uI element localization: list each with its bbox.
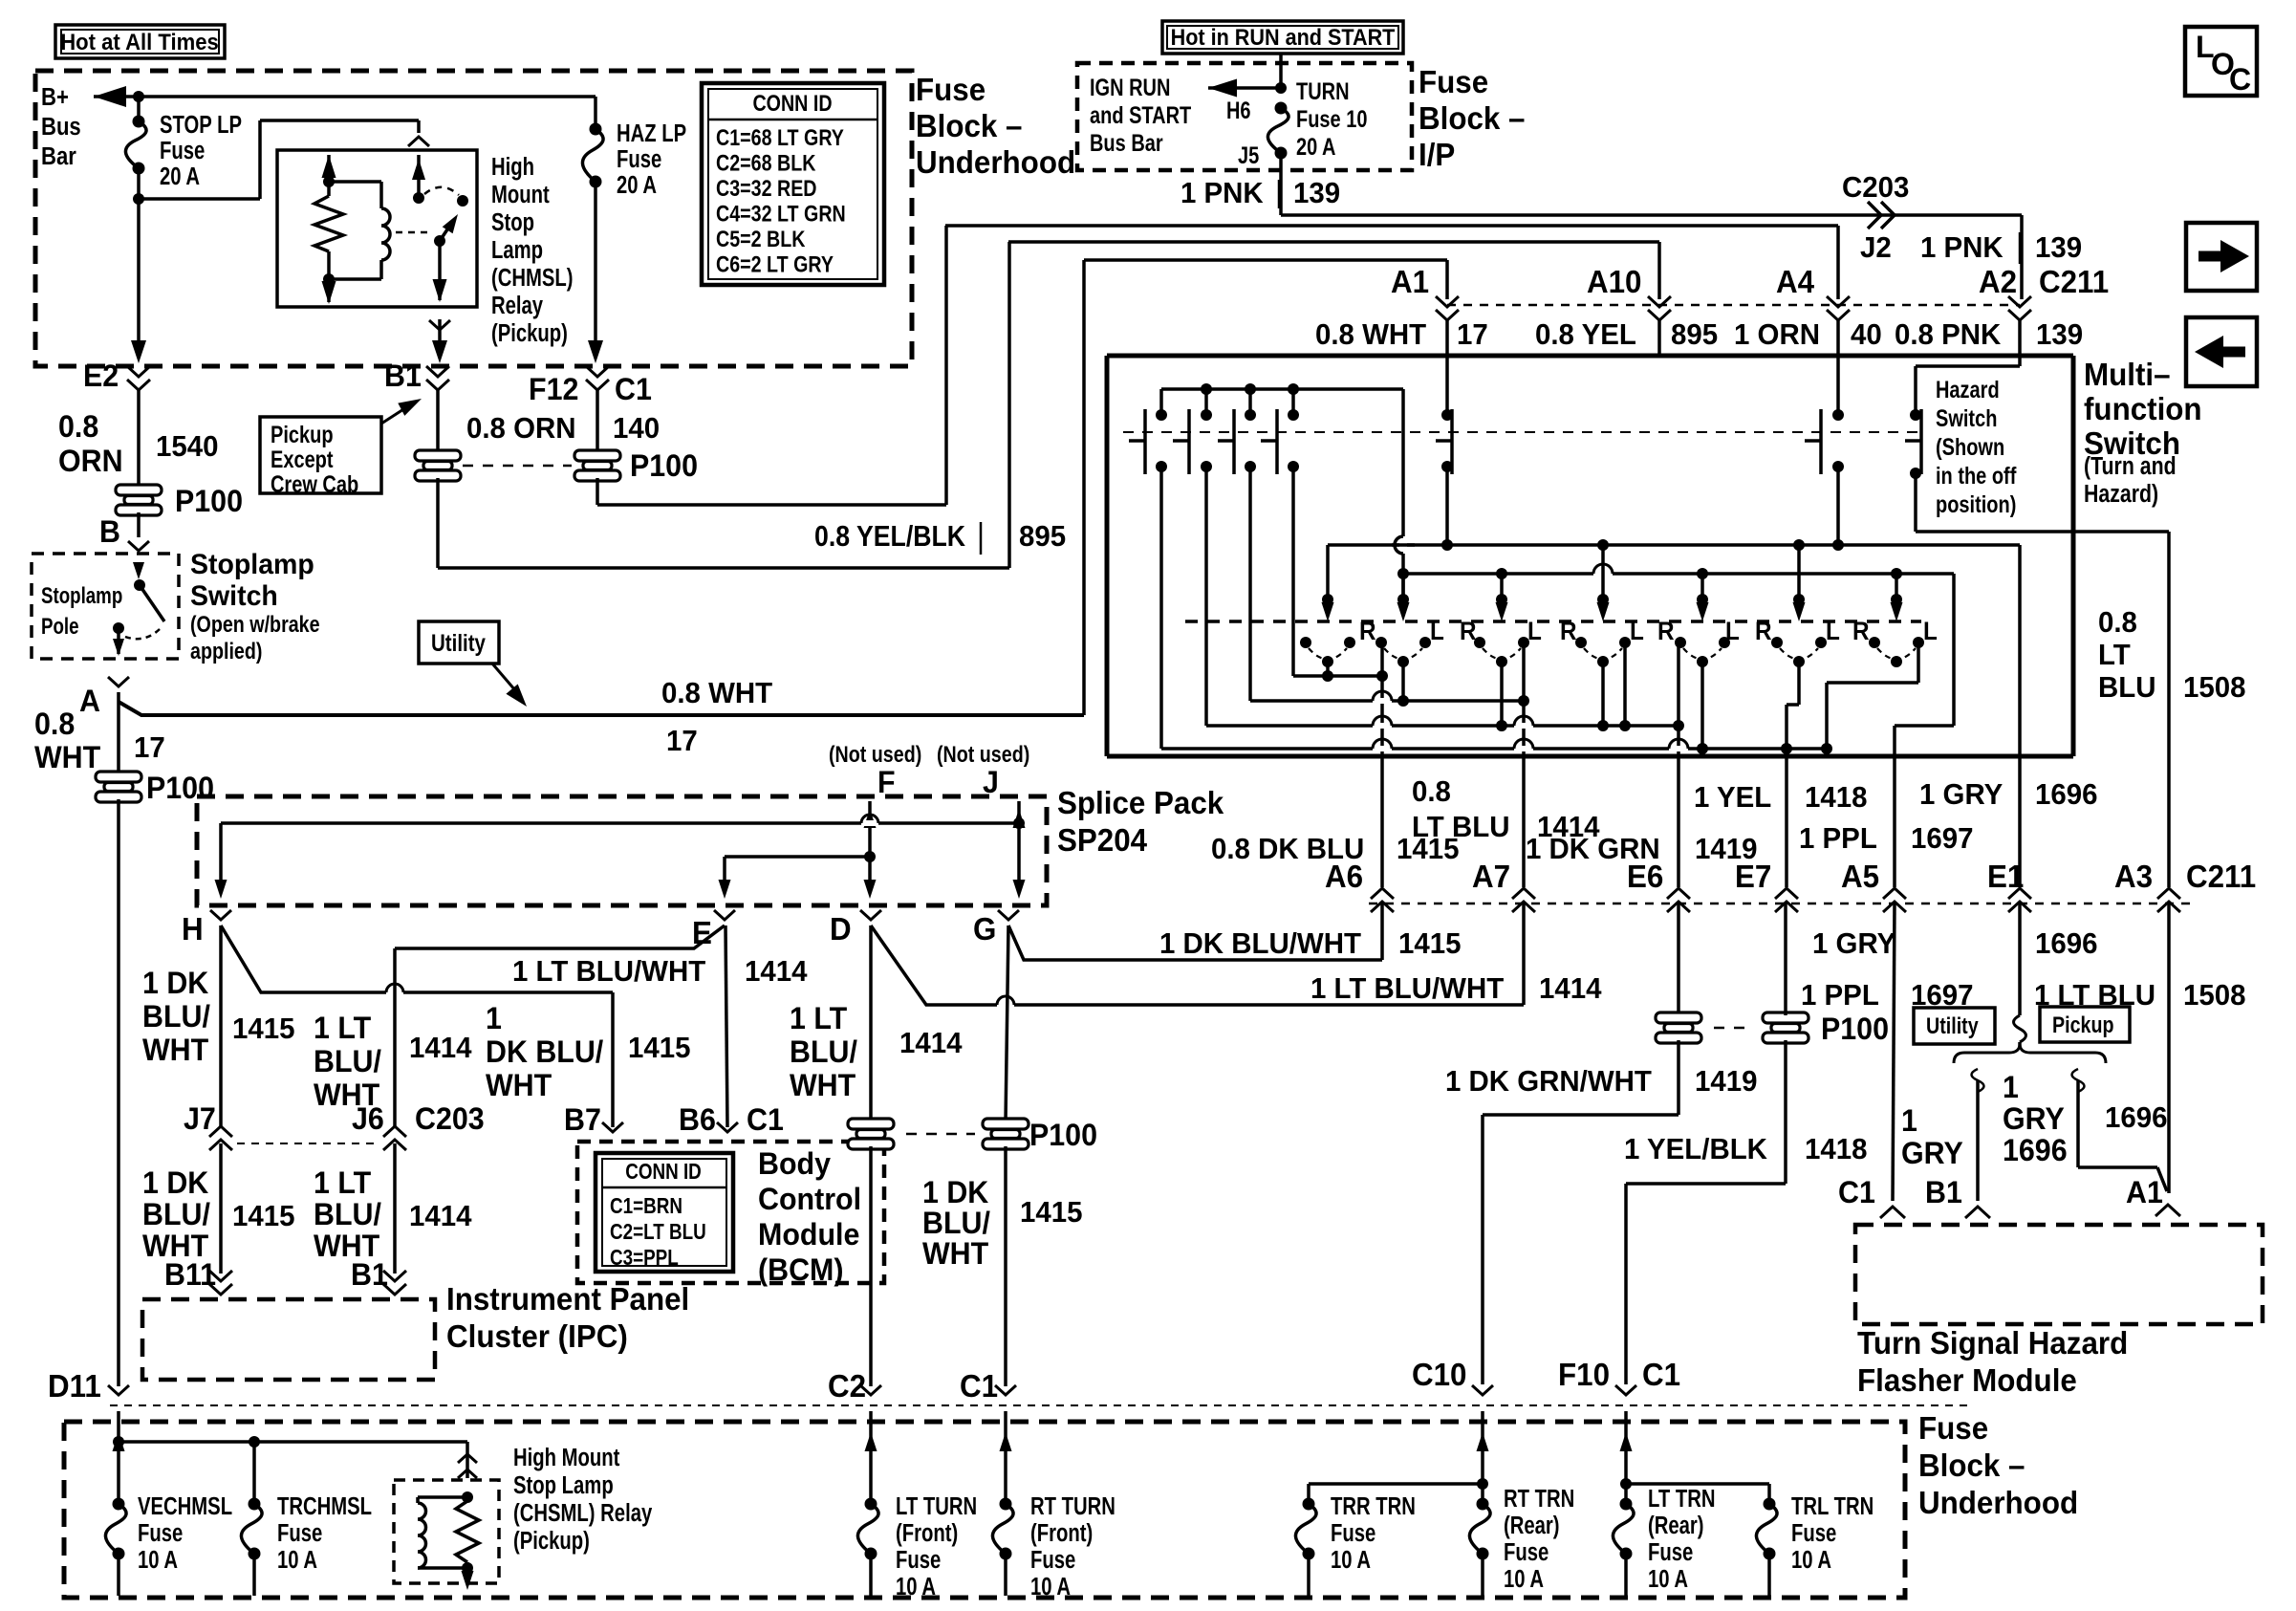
svg-text:1414: 1414 <box>899 1027 963 1059</box>
svg-text:LT: LT <box>2098 639 2131 671</box>
svg-text:1419: 1419 <box>1695 1065 1757 1098</box>
svg-text:(Shown: (Shown <box>1936 434 2004 461</box>
svg-text:C1: C1 <box>1838 1175 1875 1209</box>
svg-text:E7: E7 <box>1735 859 1771 894</box>
svg-text:Fuse 10: Fuse 10 <box>1296 106 1367 133</box>
svg-text:140: 140 <box>613 412 660 445</box>
svg-text:E2: E2 <box>83 359 119 393</box>
svg-text:WHT: WHT <box>790 1068 856 1102</box>
svg-text:(Open w/brake: (Open w/brake <box>190 611 320 637</box>
svg-text:Fuse: Fuse <box>1419 64 1488 99</box>
svg-text:C2=LT BLU: C2=LT BLU <box>610 1220 706 1244</box>
svg-text:A7: A7 <box>1472 859 1510 894</box>
svg-text:1414: 1414 <box>745 955 808 988</box>
svg-text:LT BLU: LT BLU <box>1412 811 1509 843</box>
svg-text:1 PNK: 1 PNK <box>1180 177 1264 209</box>
svg-text:Utility: Utility <box>1926 1012 1979 1038</box>
svg-text:Hot at All Times: Hot at All Times <box>60 29 219 54</box>
svg-text:1414: 1414 <box>1539 972 1602 1005</box>
svg-text:G: G <box>973 911 996 947</box>
svg-text:L: L <box>1630 618 1644 645</box>
svg-text:C203: C203 <box>1842 171 1909 204</box>
svg-text:1 DK: 1 DK <box>142 1165 209 1200</box>
svg-text:Block –: Block – <box>1918 1448 2025 1483</box>
svg-text:E: E <box>692 915 712 950</box>
svg-text:1 LT: 1 LT <box>790 1001 847 1035</box>
svg-text:C2=68 BLK: C2=68 BLK <box>716 150 816 176</box>
svg-text:1 PPL: 1 PPL <box>1799 822 1877 855</box>
svg-text:(Rear): (Rear) <box>1648 1512 1704 1539</box>
svg-text:F10: F10 <box>1558 1357 1610 1392</box>
svg-text:J5: J5 <box>1238 142 1259 169</box>
svg-text:1540: 1540 <box>156 430 218 463</box>
svg-text:WHT: WHT <box>34 740 100 774</box>
svg-text:Underhood: Underhood <box>1918 1485 2078 1520</box>
svg-text:IGN RUN: IGN RUN <box>1090 75 1170 101</box>
svg-text:1697: 1697 <box>1911 822 1973 855</box>
svg-text:1414: 1414 <box>409 1032 472 1064</box>
svg-text:Fuse: Fuse <box>617 145 661 173</box>
svg-text:SP204: SP204 <box>1057 822 1147 858</box>
svg-text:R: R <box>1755 618 1772 645</box>
svg-text:(Pickup): (Pickup) <box>513 1527 590 1555</box>
svg-text:C1=BRN: C1=BRN <box>610 1194 682 1218</box>
svg-text:BLU/: BLU/ <box>790 1034 857 1069</box>
svg-text:1 DK GRN/WHT: 1 DK GRN/WHT <box>1445 1065 1652 1098</box>
svg-text:A5: A5 <box>1841 859 1879 894</box>
svg-text:1 DK: 1 DK <box>142 966 209 1000</box>
svg-text:17: 17 <box>1457 318 1488 351</box>
svg-text:Fuse: Fuse <box>1030 1546 1075 1574</box>
svg-text:BLU/: BLU/ <box>142 1197 210 1231</box>
svg-text:BLU/: BLU/ <box>142 999 210 1034</box>
svg-text:L: L <box>1826 618 1840 645</box>
svg-text:895: 895 <box>1671 318 1718 351</box>
svg-text:1: 1 <box>486 1001 502 1035</box>
svg-text:A10: A10 <box>1587 264 1641 299</box>
svg-text:Except: Except <box>271 446 334 473</box>
svg-text:R: R <box>1560 618 1577 645</box>
svg-text:40: 40 <box>1851 318 1882 351</box>
svg-text:CONN ID: CONN ID <box>752 90 832 116</box>
svg-text:Fuse: Fuse <box>1648 1538 1693 1566</box>
svg-text:Control: Control <box>758 1182 861 1216</box>
svg-text:BLU/: BLU/ <box>922 1206 990 1240</box>
svg-text:C1=68 LT GRY: C1=68 LT GRY <box>716 124 844 150</box>
svg-text:J7: J7 <box>184 1101 216 1136</box>
svg-text:1415: 1415 <box>628 1032 690 1064</box>
svg-text:A4: A4 <box>1776 264 1814 299</box>
svg-text:1415: 1415 <box>232 1012 294 1045</box>
svg-text:Flasher Module: Flasher Module <box>1857 1362 2077 1398</box>
svg-text:B: B <box>99 514 120 549</box>
svg-text:0.8 WHT: 0.8 WHT <box>1315 318 1427 351</box>
svg-text:1696: 1696 <box>2105 1101 2167 1134</box>
svg-text:139: 139 <box>2035 231 2082 264</box>
svg-text:D: D <box>830 911 852 947</box>
svg-text:B1: B1 <box>1925 1175 1962 1209</box>
svg-text:D11: D11 <box>48 1368 101 1404</box>
svg-text:1 LT: 1 LT <box>314 1011 371 1045</box>
svg-text:10 A: 10 A <box>1504 1565 1544 1593</box>
svg-text:B1: B1 <box>384 359 422 393</box>
svg-text:(CHMSL): (CHMSL) <box>491 264 574 292</box>
svg-text:C1: C1 <box>615 372 652 406</box>
svg-text:895: 895 <box>1019 520 1066 553</box>
svg-text:C211: C211 <box>2186 859 2256 894</box>
svg-text:A2: A2 <box>1979 264 2017 299</box>
svg-text:WHT: WHT <box>922 1236 988 1271</box>
svg-text:139: 139 <box>1293 177 1340 209</box>
svg-text:P100: P100 <box>1029 1118 1097 1152</box>
svg-text:C1: C1 <box>960 1368 998 1404</box>
svg-text:10 A: 10 A <box>896 1573 936 1600</box>
svg-text:1 GRY: 1 GRY <box>1812 927 1895 960</box>
svg-text:applied): applied) <box>190 638 262 664</box>
svg-text:1 LT BLU/WHT: 1 LT BLU/WHT <box>512 955 706 988</box>
svg-text:Multi–: Multi– <box>2084 357 2171 392</box>
svg-text:0.8 ORN: 0.8 ORN <box>466 412 576 445</box>
svg-text:1: 1 <box>2003 1070 2019 1104</box>
svg-text:RT TURN: RT TURN <box>1030 1492 1116 1520</box>
svg-text:(BCM): (BCM) <box>758 1252 843 1287</box>
svg-text:Bus: Bus <box>41 113 81 141</box>
svg-text:1 DK BLU/WHT: 1 DK BLU/WHT <box>1159 927 1361 960</box>
svg-text:Hazard): Hazard) <box>2084 480 2158 509</box>
svg-text:1 PPL: 1 PPL <box>1801 979 1879 1012</box>
svg-text:TURN: TURN <box>1296 78 1350 105</box>
svg-text:B7: B7 <box>564 1102 601 1137</box>
svg-text:1 YEL: 1 YEL <box>1694 781 1771 814</box>
svg-text:Hazard: Hazard <box>1936 377 2000 403</box>
svg-text:C4=32 LT GRN: C4=32 LT GRN <box>716 201 846 227</box>
svg-text:10 A: 10 A <box>138 1546 178 1574</box>
svg-text:Module: Module <box>758 1217 859 1252</box>
svg-text:Switch: Switch <box>1936 405 1997 432</box>
svg-text:STOP LP: STOP LP <box>160 111 242 139</box>
svg-text:Fuse: Fuse <box>916 72 986 107</box>
svg-text:I/P: I/P <box>1419 137 1455 172</box>
svg-text:LT TRN: LT TRN <box>1648 1485 1716 1513</box>
svg-text:J6: J6 <box>352 1101 384 1136</box>
svg-text:(Front): (Front) <box>896 1519 958 1547</box>
svg-text:Pickup: Pickup <box>2052 1012 2114 1037</box>
svg-text:Bar: Bar <box>41 142 76 170</box>
svg-text:Utility: Utility <box>431 629 486 656</box>
svg-text:Fuse: Fuse <box>1504 1538 1549 1566</box>
svg-text:1 LT BLU/WHT: 1 LT BLU/WHT <box>1310 972 1505 1005</box>
svg-text:VECHMSL: VECHMSL <box>138 1492 232 1520</box>
svg-text:1508: 1508 <box>2183 671 2245 704</box>
svg-text:1696: 1696 <box>2035 778 2097 811</box>
svg-text:10 A: 10 A <box>277 1546 317 1574</box>
svg-text:Pickup: Pickup <box>271 422 334 448</box>
svg-text:GRY: GRY <box>2003 1101 2065 1136</box>
svg-text:Stop Lamp: Stop Lamp <box>513 1471 614 1499</box>
svg-text:GRY: GRY <box>1901 1136 1963 1170</box>
svg-text:RT TRN: RT TRN <box>1504 1485 1574 1513</box>
svg-text:H6: H6 <box>1226 98 1251 124</box>
svg-text:20 A: 20 A <box>1296 134 1335 161</box>
svg-text:A: A <box>79 684 100 718</box>
svg-text:High Mount: High Mount <box>513 1444 620 1471</box>
svg-text:HAZ LP: HAZ LP <box>617 120 686 147</box>
svg-text:High: High <box>491 153 534 181</box>
svg-text:TRL TRN: TRL TRN <box>1791 1492 1874 1520</box>
svg-text:Fuse: Fuse <box>1918 1410 1988 1446</box>
svg-text:BLU: BLU <box>2098 671 2155 704</box>
svg-text:Body: Body <box>758 1146 832 1181</box>
svg-text:in the off: in the off <box>1936 463 2017 490</box>
svg-text:Turn Signal Hazard: Turn Signal Hazard <box>1857 1325 2128 1361</box>
svg-text:(CHSML) Relay: (CHSML) Relay <box>513 1499 652 1527</box>
svg-text:1 DK: 1 DK <box>922 1175 989 1209</box>
svg-text:0.8 YEL: 0.8 YEL <box>1535 318 1636 351</box>
svg-text:17: 17 <box>666 725 698 757</box>
svg-text:C5=2 BLK: C5=2 BLK <box>716 226 806 251</box>
svg-text:1 PNK: 1 PNK <box>1920 231 2004 264</box>
svg-text:R: R <box>1657 618 1675 645</box>
svg-text:Pole: Pole <box>41 614 79 640</box>
svg-text:BLU/: BLU/ <box>314 1197 381 1231</box>
svg-text:F12: F12 <box>529 372 578 406</box>
svg-text:B6: B6 <box>679 1102 716 1137</box>
svg-text:1 LT: 1 LT <box>314 1165 371 1200</box>
svg-text:1: 1 <box>1901 1103 1917 1138</box>
svg-text:Relay: Relay <box>491 292 543 319</box>
svg-text:0.8: 0.8 <box>2098 606 2137 639</box>
svg-text:Stoplamp: Stoplamp <box>41 583 122 609</box>
svg-text:1 ORN: 1 ORN <box>1734 318 1820 351</box>
svg-text:Cluster (IPC): Cluster (IPC) <box>446 1318 628 1354</box>
svg-text:Fuse: Fuse <box>1791 1519 1836 1547</box>
svg-text:(Rear): (Rear) <box>1504 1512 1560 1539</box>
svg-text:E6: E6 <box>1627 859 1663 894</box>
svg-text:B+: B+ <box>41 83 69 111</box>
svg-text:P100: P100 <box>175 484 243 518</box>
svg-text:A3: A3 <box>2114 859 2153 894</box>
svg-text:P100: P100 <box>630 448 698 483</box>
svg-text:A6: A6 <box>1325 859 1363 894</box>
svg-text:C203: C203 <box>415 1101 485 1136</box>
svg-text:B11: B11 <box>164 1257 216 1292</box>
svg-text:Stop: Stop <box>491 208 534 236</box>
svg-text:10 A: 10 A <box>1331 1546 1371 1574</box>
svg-text:Lamp: Lamp <box>491 236 543 264</box>
svg-text:10 A: 10 A <box>1030 1573 1071 1600</box>
svg-text:Fuse: Fuse <box>138 1519 183 1547</box>
svg-text:10 A: 10 A <box>1791 1546 1831 1574</box>
svg-text:Fuse: Fuse <box>277 1519 322 1547</box>
svg-text:Fuse: Fuse <box>896 1546 941 1574</box>
svg-text:LT TURN: LT TURN <box>896 1492 977 1520</box>
svg-text:Splice Pack: Splice Pack <box>1057 785 1224 820</box>
svg-text:C211: C211 <box>2039 264 2109 299</box>
svg-text:TRR TRN: TRR TRN <box>1331 1492 1416 1520</box>
svg-text:Block –: Block – <box>1419 100 1525 136</box>
svg-text:Mount: Mount <box>491 181 550 208</box>
svg-text:A1: A1 <box>1391 264 1429 299</box>
svg-text:1696: 1696 <box>2003 1133 2068 1167</box>
svg-text:1414: 1414 <box>409 1200 472 1232</box>
svg-text:C3=32 RED: C3=32 RED <box>716 175 817 201</box>
svg-text:C6=2 LT GRY: C6=2 LT GRY <box>716 251 834 277</box>
svg-text:1418: 1418 <box>1805 781 1867 814</box>
svg-text:1415: 1415 <box>232 1200 294 1232</box>
svg-text:0.8 WHT: 0.8 WHT <box>661 677 773 709</box>
svg-text:F: F <box>877 765 896 799</box>
svg-text:Fuse: Fuse <box>1331 1519 1375 1547</box>
svg-text:P100: P100 <box>1821 1012 1889 1046</box>
svg-text:(Not used): (Not used) <box>829 741 921 767</box>
svg-text:and START: and START <box>1090 102 1191 129</box>
svg-text:C3=PPL: C3=PPL <box>610 1246 679 1270</box>
svg-text:0.8: 0.8 <box>34 707 75 741</box>
svg-text:L: L <box>1527 618 1542 645</box>
svg-text:1 GRY: 1 GRY <box>1919 778 2003 811</box>
svg-text:C10: C10 <box>1412 1357 1466 1392</box>
svg-text:Fuse: Fuse <box>160 137 205 164</box>
svg-text:1415: 1415 <box>1020 1196 1082 1229</box>
svg-text:0.8: 0.8 <box>58 409 98 444</box>
svg-text:1418: 1418 <box>1805 1133 1867 1165</box>
svg-text:C1: C1 <box>1642 1357 1680 1392</box>
svg-text:1508: 1508 <box>2183 979 2245 1012</box>
svg-text:B1: B1 <box>351 1257 388 1292</box>
svg-text:WHT: WHT <box>486 1068 552 1102</box>
svg-text:1696: 1696 <box>2035 927 2097 960</box>
svg-text:P100: P100 <box>146 771 214 805</box>
svg-text:1 YEL/BLK: 1 YEL/BLK <box>1624 1133 1767 1165</box>
svg-text:Hot in RUN and START: Hot in RUN and START <box>1171 24 1396 50</box>
svg-text:0.8 YEL/BLK: 0.8 YEL/BLK <box>814 520 965 553</box>
svg-text:position): position) <box>1936 491 2016 518</box>
svg-text:(Not used): (Not used) <box>937 741 1029 767</box>
svg-text:L: L <box>1430 618 1444 645</box>
svg-text:Crew Cab: Crew Cab <box>271 471 358 498</box>
svg-text:L: L <box>1923 618 1938 645</box>
svg-text:10 A: 10 A <box>1648 1565 1688 1593</box>
svg-text:ORN: ORN <box>58 444 123 478</box>
svg-text:20 A: 20 A <box>617 171 657 199</box>
svg-text:J: J <box>983 765 999 799</box>
svg-text:Switch: Switch <box>190 580 278 612</box>
svg-text:WHT: WHT <box>142 1033 208 1067</box>
svg-text:Bus Bar: Bus Bar <box>1090 130 1163 157</box>
svg-text:TRCHMSL: TRCHMSL <box>277 1492 372 1520</box>
svg-text:139: 139 <box>2036 318 2083 351</box>
svg-text:Stoplamp: Stoplamp <box>190 549 314 580</box>
svg-text:DK BLU/: DK BLU/ <box>486 1034 604 1069</box>
svg-text:Instrument Panel: Instrument Panel <box>446 1281 689 1317</box>
svg-text:A1: A1 <box>2126 1175 2163 1209</box>
svg-text:H: H <box>182 911 204 947</box>
svg-text:(Pickup): (Pickup) <box>491 319 568 347</box>
svg-text:C1: C1 <box>747 1102 784 1137</box>
svg-text:1415: 1415 <box>1398 927 1461 960</box>
svg-text:17: 17 <box>134 731 165 764</box>
svg-text:(Turn and: (Turn and <box>2084 452 2177 481</box>
svg-text:C: C <box>2229 62 2251 97</box>
svg-text:J2: J2 <box>1860 231 1892 264</box>
svg-text:R: R <box>1359 618 1376 645</box>
svg-text:BLU/: BLU/ <box>314 1044 381 1078</box>
svg-text:Block –: Block – <box>916 108 1022 143</box>
svg-text:0.8 PNK: 0.8 PNK <box>1895 318 2001 351</box>
svg-text:20 A: 20 A <box>160 163 200 190</box>
svg-text:Underhood: Underhood <box>916 144 1075 180</box>
svg-text:R: R <box>1852 618 1870 645</box>
svg-text:function: function <box>2084 391 2202 426</box>
svg-text:CONN ID: CONN ID <box>625 1160 702 1184</box>
svg-text:(Front): (Front) <box>1030 1519 1093 1547</box>
svg-text:0.8: 0.8 <box>1412 775 1451 808</box>
